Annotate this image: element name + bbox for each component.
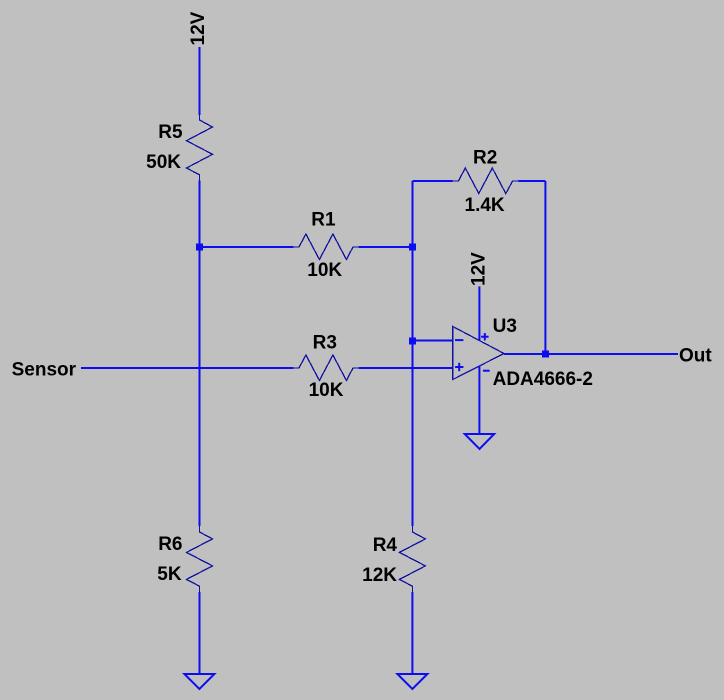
op-amp U3 inverting input minus mark	[455, 339, 463, 341]
op-amp U3 non-inverting input plus mark	[455, 363, 463, 371]
svg-text:Sensor: Sensor	[12, 360, 77, 381]
svg-text:R6: R6	[158, 534, 182, 555]
wire Sensor to R3	[81, 367, 294, 369]
ground (R4)	[397, 674, 427, 689]
svg-text:Out: Out	[679, 346, 712, 367]
svg-text:1.4K: 1.4K	[465, 195, 505, 216]
svg-text:R5: R5	[158, 122, 183, 143]
svg-text:R4: R4	[373, 535, 398, 556]
op-amp U3 body	[453, 326, 504, 379]
wire R6 to ground	[199, 592, 201, 674]
svg-text:5K: 5K	[157, 564, 182, 585]
wire node A to R1	[200, 246, 294, 248]
wire vertical inverting column	[412, 181, 414, 526]
resistor R5	[187, 115, 213, 181]
resistor R4	[399, 526, 425, 592]
ground (R6)	[184, 674, 214, 689]
resistor R3	[294, 355, 359, 381]
wire R1 to node B	[359, 246, 413, 248]
ground (op-amp V-)	[465, 434, 495, 449]
svg-text:10K: 10K	[309, 380, 344, 401]
resistor R2	[453, 168, 519, 194]
junction node B (R1/R2 branch)	[409, 244, 416, 251]
junction node A (R5/R1)	[196, 244, 203, 251]
resistor R1	[294, 234, 359, 260]
svg-text:R3: R3	[313, 333, 337, 354]
wire output	[504, 353, 678, 355]
wire R2 left lead	[413, 180, 453, 182]
svg-text:R1: R1	[311, 210, 336, 231]
svg-text:10K: 10K	[307, 260, 342, 281]
wire R4 to ground	[411, 592, 413, 674]
svg-text:12V: 12V	[468, 252, 489, 286]
svg-text:12V: 12V	[188, 11, 209, 45]
wire feedback down to output node	[544, 181, 546, 354]
resistor R6	[187, 526, 213, 592]
wire R5 to R6 through left node	[199, 181, 201, 527]
svg-text:12K: 12K	[362, 565, 397, 586]
svg-text:50K: 50K	[146, 152, 181, 173]
junction node D (output/feedback)	[542, 351, 549, 358]
svg-text:R2: R2	[473, 148, 497, 169]
op-amp U3 V- rail minus mark	[483, 370, 490, 372]
wire V- pin	[478, 366, 480, 434]
wire node C to op-amp inverting input	[413, 340, 453, 342]
op-amp U3 V+ rail plus mark	[481, 333, 489, 340]
wire R3 to op-amp non-inverting input	[359, 367, 453, 369]
wire R2 right lead	[518, 180, 545, 182]
wire 12V to R5	[199, 47, 201, 115]
junction node C (inverting input)	[409, 338, 416, 345]
wire V+ pin	[478, 286, 480, 340]
svg-text:U3: U3	[493, 316, 517, 337]
svg-text:ADA4666-2: ADA4666-2	[493, 369, 593, 390]
